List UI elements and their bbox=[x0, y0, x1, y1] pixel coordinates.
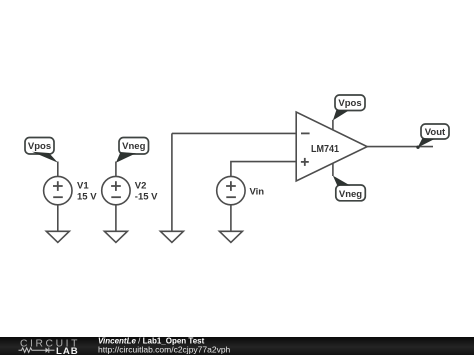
svg-text:V2: V2 bbox=[135, 181, 147, 192]
flag Vneg (op-amp negative supply) bbox=[333, 176, 365, 201]
wire Vin bottom to ground bbox=[230, 205, 232, 231]
wire Vpos flag to V1 top bbox=[57, 162, 59, 177]
svg-text:V1: V1 bbox=[77, 181, 89, 192]
flag Vneg (node Vneg at V2) bbox=[116, 138, 149, 163]
svg-text:Vin: Vin bbox=[250, 187, 265, 198]
op-amp negative supply pin bbox=[332, 163, 334, 176]
svg-text:Vpos: Vpos bbox=[28, 141, 51, 152]
label V2 -15 V bbox=[135, 181, 158, 203]
wire V1 bottom to ground bbox=[57, 205, 59, 231]
voltage source Vin bbox=[217, 176, 245, 204]
op-amp non-inverting input pin mark bbox=[301, 158, 309, 166]
flag Vpos (node Vpos at V1) bbox=[25, 138, 58, 163]
svg-text:15 V: 15 V bbox=[77, 192, 97, 203]
svg-text:Vout: Vout bbox=[425, 127, 446, 138]
svg-text:LAB: LAB bbox=[56, 346, 79, 355]
ground under V2 bbox=[104, 231, 127, 242]
svg-text:Vneg: Vneg bbox=[122, 141, 145, 152]
ground on inverting input net bbox=[160, 231, 183, 242]
wire Vneg flag to V2 top bbox=[115, 162, 117, 177]
flag Vout (output node) bbox=[418, 124, 449, 148]
ground under V1 bbox=[46, 231, 69, 242]
op-amp U1 LM741 body bbox=[296, 112, 367, 181]
op-amp inverting input pin mark bbox=[301, 132, 310, 134]
svg-text:LM741: LM741 bbox=[311, 144, 339, 155]
wire Vin top to non-inverting input bbox=[231, 162, 296, 177]
node Vout junction dot bbox=[416, 146, 419, 149]
svg-text:Vpos: Vpos bbox=[338, 98, 361, 109]
svg-text:-15 V: -15 V bbox=[135, 192, 158, 203]
flag Vpos (op-amp positive supply) bbox=[333, 95, 365, 120]
wire inverting input net: vertical to ground bbox=[171, 133, 173, 231]
wire V2 bottom to ground bbox=[115, 205, 117, 231]
CircuitLab logo resistor-diode line bbox=[19, 348, 55, 353]
svg-text:http://circuitlab.com/c2cjpy77: http://circuitlab.com/c2cjpy77a2vph bbox=[98, 345, 231, 355]
ground under Vin bbox=[219, 231, 242, 242]
voltage source V1 bbox=[44, 176, 72, 204]
wire inverting input net: horizontal to op-amp bbox=[172, 132, 296, 134]
op-amp positive supply pin bbox=[332, 120, 334, 131]
label V1 15 V bbox=[77, 181, 97, 203]
voltage source V2 bbox=[102, 176, 130, 204]
wire op-amp output bbox=[367, 146, 433, 148]
svg-text:Vneg: Vneg bbox=[339, 189, 362, 200]
